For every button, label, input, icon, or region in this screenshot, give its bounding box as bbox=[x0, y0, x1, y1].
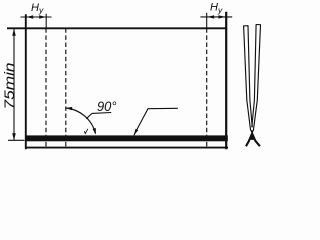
side view left strip top cap bbox=[243, 25, 248, 27]
arc bottom arrowhead bbox=[93, 128, 96, 135]
svg-text:75min: 75min bbox=[2, 63, 17, 110]
extension line above left dashed bbox=[45, 14, 47, 28]
side view right strip bbox=[253, 25, 260, 131]
75min top arrowhead bbox=[12, 29, 16, 36]
leader arrow to blade bar bbox=[134, 108, 178, 135]
left Hy dimension line bbox=[21, 15, 52, 18]
side view left strip inner line bbox=[248, 26, 252, 128]
side view left crossing stroke bbox=[251, 130, 256, 141]
arc top arrowhead bbox=[66, 107, 73, 110]
front view right edge bbox=[225, 12, 227, 150]
side view left strip bbox=[244, 26, 251, 130]
dashed line (right clamp limit) bbox=[206, 28, 208, 147]
left Hy left arrowhead bbox=[27, 15, 34, 18]
front view left edge bbox=[25, 14, 27, 149]
extension line above right dashed bbox=[206, 13, 208, 28]
right Hy left arrowhead bbox=[207, 15, 214, 18]
front view bottom edge bbox=[25, 147, 228, 149]
75min bottom extension line bbox=[8, 139, 25, 141]
side view crossing blob bbox=[249, 134, 254, 140]
dashed line (left clamp limit) bbox=[45, 28, 47, 147]
75min bottom arrowhead bbox=[12, 133, 16, 140]
75min dimension line bbox=[8, 29, 25, 141]
dashed line (90 deg reference) bbox=[65, 28, 67, 147]
side view right strip top cap bbox=[256, 24, 261, 26]
90 degree arc bbox=[66, 108, 96, 134]
leader arrowhead bbox=[134, 129, 139, 136]
svg-text:90°: 90° bbox=[97, 98, 117, 114]
side view left foot bbox=[246, 140, 250, 146]
front view top edge bbox=[7, 27, 227, 29]
right Hy dimension line bbox=[200, 15, 232, 18]
right Hy right arrowhead bbox=[219, 15, 226, 18]
side view right crossing stroke bbox=[249, 130, 254, 141]
side view right strip inner line bbox=[252, 25, 256, 128]
90 deg leader bbox=[86, 113, 111, 119]
side view right foot bbox=[255, 140, 260, 146]
squeegee blade bar bbox=[25, 135, 228, 141]
small tick near arc foot bbox=[84, 129, 88, 134]
left Hy right arrowhead bbox=[39, 15, 46, 18]
